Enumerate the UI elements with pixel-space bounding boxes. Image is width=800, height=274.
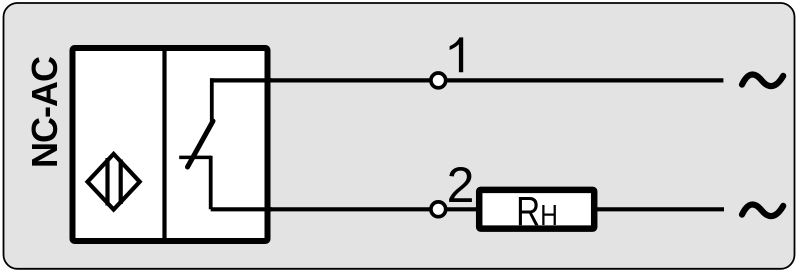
NC contact switch: lower lead (209, 156, 213, 210)
NC contact switch: upper lead to terminal 1 wire (210, 78, 272, 82)
terminal 1 (circle) (431, 73, 446, 88)
resistor Rн (load) (479, 190, 594, 229)
NC contact switch: upper fixed lead (210, 78, 214, 123)
svg-text:H: H (540, 199, 558, 231)
svg-text:2: 2 (447, 157, 475, 213)
wire top: from sensor box to AC terminal (211, 78, 723, 82)
sensor internal divider (162, 47, 166, 242)
svg-text:R: R (516, 188, 540, 234)
sensor body NC-AC (73, 48, 268, 241)
proximity sensor symbol (diamond) (88, 154, 140, 210)
terminal 2 (circle) (431, 202, 446, 217)
wire bottom: from sensor box to resistor and AC terminal (211, 207, 724, 211)
pin label 1 (450, 37, 464, 72)
NC contact switch: lower contact tick (179, 156, 211, 160)
NC contact switch: lower lead to terminal 2 wire (211, 207, 272, 211)
label Rн (516, 188, 558, 234)
AC supply symbol top (~) (742, 74, 783, 86)
AC supply symbol bottom (~) (742, 204, 783, 216)
svg-text:NC-AC: NC-AC (24, 56, 65, 168)
NC contact switch: blade (188, 121, 214, 167)
